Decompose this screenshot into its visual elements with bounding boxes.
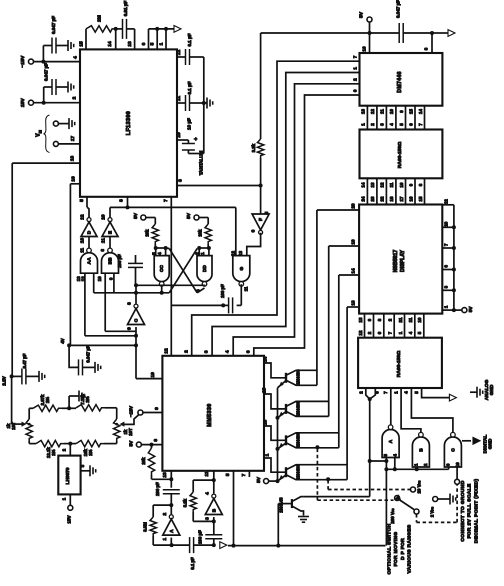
svg-text:9: 9: [127, 327, 133, 330]
svg-text:GND: GND: [487, 438, 493, 449]
transistor Q1 2N4403: [286, 369, 317, 385]
wire RA08-2 pin 5 to arrow: [414, 388, 457, 401]
svg-text:4V: 4V: [60, 338, 65, 343]
switch throw 20VFS: [411, 481, 422, 494]
svg-text:11: 11: [244, 286, 249, 291]
svg-text:9: 9: [154, 407, 160, 410]
svg-text:2M: 2M: [97, 15, 103, 22]
svg-text:LH0070: LH0070: [65, 467, 71, 484]
capacitor 200pF osc A: [155, 482, 180, 514]
svg-text:0.1 µF: 0.1 µF: [187, 33, 192, 46]
svg-text:C: C: [134, 318, 140, 322]
inverter F: [251, 186, 271, 235]
wire display pin 13 to Q4: [347, 300, 359, 307]
svg-text:4: 4: [73, 56, 79, 59]
svg-text:6: 6: [245, 350, 251, 353]
nand gate DD: [195, 252, 213, 286]
svg-text:BB: BB: [108, 257, 114, 264]
wire gate A inputs: [370, 458, 397, 546]
wire dashed switch to 2VFS: [417, 484, 458, 522]
svg-text:11: 11: [204, 471, 210, 476]
svg-text:3: 3: [204, 350, 210, 353]
svg-text:6: 6: [141, 42, 147, 45]
svg-text:11: 11: [176, 96, 182, 101]
svg-text:1: 1: [265, 453, 271, 456]
svg-text:7: 7: [241, 473, 247, 476]
wire bus digit B3: [225, 78, 360, 356]
svg-text:1: 1: [159, 42, 165, 45]
svg-text:10T: 10T: [11, 422, 16, 430]
svg-text:1: 1: [200, 252, 206, 255]
svg-text:10 µF: 10 µF: [187, 118, 192, 130]
svg-text:10: 10: [101, 214, 107, 220]
svg-text:DD: DD: [202, 265, 208, 272]
wire RA08-2 pin 7 to gate A: [383, 388, 391, 426]
wire AA output down to inverter C input: [85, 273, 138, 338]
wire display pin 14 to Q3: [339, 268, 359, 275]
wire D to gate AA: [88, 236, 90, 249]
ground integrator bus: [204, 98, 213, 109]
wire Q1 emitter to rail: [278, 381, 287, 388]
svg-text:12: 12: [80, 214, 86, 220]
svg-text:5V: 5V: [186, 212, 192, 219]
svg-text:11: 11: [101, 238, 107, 243]
wire cross couple CC to DD: [169, 249, 197, 293]
wire scan line bottom: [228, 544, 385, 548]
svg-text:5: 5: [79, 199, 85, 202]
capacitor 0.1uF pin 11: [176, 81, 204, 111]
wire F output to gate G: [247, 233, 261, 256]
nand gate C decimal point: [444, 432, 461, 467]
inverter B oscillator: [204, 492, 222, 520]
svg-text:12: 12: [358, 330, 363, 335]
nand gate BB: [97, 248, 119, 281]
wire CC output: [94, 285, 170, 295]
svg-text:2N4403: 2N4403: [296, 432, 301, 448]
inverter C: [127, 285, 145, 330]
wire 5V rail to comparator pullup: [261, 32, 370, 34]
svg-text:2.2V: 2.2V: [2, 376, 7, 385]
svg-text:23: 23: [370, 196, 375, 201]
svg-text:GND: GND: [489, 384, 495, 395]
wire DM7446 to RA08 pins: [361, 106, 425, 130]
svg-text:14: 14: [361, 182, 366, 187]
svg-text:16: 16: [263, 420, 269, 426]
svg-text:B: B: [211, 508, 217, 512]
svg-text:7: 7: [163, 199, 169, 202]
trimmer 1k 10T left: [6, 408, 36, 443]
svg-text:8: 8: [119, 199, 125, 202]
svg-text:12: 12: [176, 50, 182, 56]
switch pole 200VFS: [390, 494, 414, 523]
wire display to RA08-2 pins: [358, 314, 424, 338]
svg-text:6: 6: [251, 229, 257, 232]
svg-text:200 pF: 200 pF: [198, 530, 203, 544]
resistor 2M comparator feedback: [79, 15, 118, 49]
svg-text:2: 2: [72, 96, 78, 99]
svg-text:18: 18: [389, 196, 394, 201]
capacitor 0.1uF pin 12: [176, 33, 204, 65]
svg-text:200 VFS: 200 VFS: [390, 508, 395, 523]
wire gate C input to 2VFS circle: [455, 467, 460, 484]
wire A output: [170, 538, 174, 548]
node 2.2V reference tap: [2, 374, 23, 424]
wire dashed Q3 to switch pole: [317, 449, 393, 501]
svg-text:0.047 µF: 0.047 µF: [44, 63, 49, 81]
wire auto-zero node 4V: [60, 338, 71, 347]
resistor 10k bridge: [76, 440, 104, 456]
svg-text:D: D: [87, 230, 93, 234]
inverter A oscillator: [162, 513, 180, 541]
svg-text:A: A: [388, 439, 394, 443]
svg-text:11: 11: [380, 109, 385, 114]
svg-text:2: 2: [183, 350, 189, 353]
node VIN input terminals: [35, 115, 58, 153]
terminal 5V pullup DD: [186, 212, 208, 224]
wire strobe to G input 12: [235, 207, 237, 255]
svg-text:MM5330: MM5330: [207, 403, 213, 426]
resistor 8.2k osc: [183, 480, 214, 521]
ground Q5 emitter: [298, 517, 309, 523]
svg-text:13: 13: [80, 238, 86, 244]
svg-text:0.1 µF: 0.1 µF: [187, 81, 192, 94]
wire MM5330 pin 7 stub: [241, 471, 249, 477]
svg-text:24: 24: [361, 196, 366, 201]
wire RA08-2 pin 6 join: [370, 388, 380, 399]
capacitor 0.47uF reference: [12, 353, 45, 384]
wire oscillator out arrow: [220, 542, 227, 549]
svg-text:15: 15: [262, 388, 268, 394]
capacitor 10uF tantalum pin 10: [176, 118, 204, 175]
wire pin 18 to 2.2V node: [12, 156, 80, 377]
wire BB inputs down: [105, 273, 136, 331]
svg-text:E: E: [108, 231, 114, 234]
svg-text:2N4403: 2N4403: [296, 369, 301, 385]
svg-text:100 pF: 100 pF: [220, 284, 225, 298]
svg-text:CC: CC: [159, 265, 165, 272]
wire RA08 to display pins: [361, 178, 425, 204]
capacitor 0.047uF logic bypass: [370, 0, 435, 43]
wire display anode bus right: [442, 199, 462, 312]
svg-text:8: 8: [153, 439, 159, 442]
wire gate input link line: [386, 467, 448, 471]
svg-text:14: 14: [418, 109, 423, 114]
terminal 5V MM5330: [128, 439, 162, 447]
svg-text:5V: 5V: [128, 440, 134, 447]
transistor Q5 2N4148: [279, 497, 304, 516]
svg-text:−15V: −15V: [129, 405, 135, 417]
node bridge top center: [62, 391, 85, 411]
svg-text:15: 15: [408, 109, 413, 114]
wire MM5330 pin 5 riser: [225, 471, 234, 546]
wire pin 5 to inverter D: [79, 197, 89, 218]
svg-text:16: 16: [408, 196, 413, 201]
wire AA second input from CC output: [93, 273, 95, 293]
wire pin 8 strobe line: [110, 197, 236, 210]
svg-text:VARIOUS RANGES: VARIOUS RANGES: [407, 524, 413, 573]
svg-text:3: 3: [204, 517, 210, 520]
label connect to ground note: [460, 479, 479, 544]
wire DD output to inverter C node: [134, 283, 205, 291]
svg-text:3: 3: [178, 179, 184, 182]
capacitor 0.047uF on -15V rail: [43, 16, 73, 62]
wire Q5 collector to RA08 line: [303, 496, 370, 498]
label optional switch note: [387, 523, 413, 574]
svg-text:0.47 µF: 0.47 µF: [22, 353, 27, 368]
svg-text:15V: 15V: [66, 515, 71, 523]
svg-text:13: 13: [361, 109, 366, 114]
resistor 3.3k comparator pullup: [251, 33, 264, 186]
svg-text:2N4148: 2N4148: [279, 497, 284, 513]
svg-text:1%: 1%: [45, 397, 50, 403]
svg-text:4: 4: [225, 350, 231, 353]
wire pin7 line to 100pF and MM5330 pin 12: [163, 197, 229, 356]
svg-text:10: 10: [399, 182, 404, 187]
terminal 2VFS ground option: [430, 494, 456, 518]
nand gate B decimal point: [412, 432, 429, 467]
wire pin 14: [107, 29, 116, 50]
node bridge bottom center: [62, 442, 77, 456]
svg-text:10: 10: [97, 276, 102, 281]
svg-text:0.047 µF: 0.047 µF: [396, 0, 401, 18]
svg-text:1%: 1%: [51, 449, 56, 455]
svg-text:5V: 5V: [359, 11, 365, 18]
resistor 12.1k bridge: [36, 440, 64, 458]
wire CC input node: [154, 244, 168, 256]
resistor 2.67k bridge: [33, 394, 62, 411]
svg-text:11: 11: [389, 182, 394, 187]
resistor array U4 RA08-150: [360, 130, 443, 179]
svg-text:0.01 µF: 0.01 µF: [123, 1, 128, 17]
wire emitter rail to 5V: [277, 388, 279, 481]
svg-text:10: 10: [443, 221, 448, 226]
svg-text:11: 11: [79, 247, 84, 252]
capacitor 0.1uF osc: [173, 537, 214, 570]
svg-text:B: B: [418, 448, 424, 452]
wire Q4 collector riser: [326, 307, 347, 481]
svg-text:15: 15: [79, 41, 85, 47]
svg-text:17: 17: [70, 136, 76, 142]
wire B output: [212, 517, 216, 535]
svg-text:15V: 15V: [20, 98, 26, 108]
trimmer 1k 10T right: [104, 408, 133, 444]
svg-text:8: 8: [127, 302, 133, 305]
svg-text:12: 12: [370, 109, 375, 114]
wire -15V to bridge trimmer: [124, 372, 156, 425]
svg-text:12: 12: [230, 251, 236, 257]
svg-text:13: 13: [127, 41, 133, 47]
svg-text:5: 5: [264, 211, 270, 214]
svg-text:3.3M: 3.3M: [143, 522, 148, 532]
svg-text:5: 5: [150, 42, 156, 45]
wire integrator cap bus: [202, 57, 206, 154]
svg-text:0.047 µF: 0.047 µF: [86, 345, 91, 362]
svg-text:2N4403: 2N4403: [296, 401, 301, 417]
terminal 5V logic supply: [359, 11, 373, 53]
wire Q3 emitter to rail: [276, 443, 287, 451]
wire base feed pin 15: [262, 388, 287, 409]
wire VIN+ to ground: [58, 118, 74, 129]
nand gate G: [230, 251, 250, 292]
regulator U7 LH0070 reference: [58, 456, 80, 495]
wire DD input node: [197, 244, 211, 256]
svg-text:DECIMAL POINT (FIXED): DECIMAL POINT (FIXED): [473, 479, 479, 544]
wire base feed pin 1: [264, 453, 286, 472]
svg-text:3.3k: 3.3k: [251, 143, 256, 152]
svg-text:10: 10: [417, 317, 422, 322]
svg-text:200 pF: 200 pF: [155, 482, 160, 496]
svg-text:10k: 10k: [198, 229, 203, 237]
svg-text:14: 14: [351, 268, 356, 274]
svg-text:12: 12: [163, 348, 169, 354]
ground digital gnd arrow: [462, 435, 493, 454]
svg-text:DISPLAY: DISPLAY: [400, 249, 406, 271]
ground analog gnd symbol: [470, 379, 495, 400]
svg-text:13: 13: [351, 300, 356, 306]
switch throw lower: [414, 509, 419, 514]
svg-text:13: 13: [370, 182, 375, 187]
svg-text:5: 5: [152, 252, 158, 255]
resistor 10k pullup CC: [145, 224, 159, 244]
transistor Q2 2N4403: [286, 401, 329, 417]
svg-text:13: 13: [162, 472, 168, 478]
wire auto-zero to pin10 node: [69, 344, 136, 346]
svg-text:G: G: [239, 266, 245, 270]
svg-text:100 pF: 100 pF: [117, 254, 122, 268]
svg-text:2N4403: 2N4403: [296, 464, 301, 480]
op-amp U1 LF13300 analog block: [80, 49, 177, 196]
wire pin 16 to auto-zero node: [70, 176, 80, 345]
wire 15V to pin 2: [34, 96, 81, 104]
svg-text:A: A: [169, 529, 175, 533]
wire Q4 emitter to rail: [276, 475, 287, 483]
svg-text:5: 5: [225, 473, 231, 476]
svg-text:10k: 10k: [141, 457, 146, 465]
terminal -15V MM5330: [129, 405, 163, 417]
svg-text:17: 17: [399, 196, 404, 201]
terminal -15V: [20, 55, 34, 67]
svg-text:C: C: [450, 448, 456, 452]
wire pin 13: [162, 471, 174, 488]
wire bus digit B4: [245, 89, 359, 356]
wire inverter C input to MM5330 pin 10: [134, 327, 162, 379]
decoder U3 DM7446: [360, 53, 443, 106]
svg-text:2 VFS: 2 VFS: [430, 507, 435, 517]
svg-text:22: 22: [380, 196, 385, 201]
capacitor 200pF osc B: [198, 530, 223, 547]
svg-text:14: 14: [107, 41, 113, 47]
svg-text:12: 12: [443, 199, 448, 204]
wire bus digit B2: [204, 67, 360, 356]
wire VIN- to pin 17: [58, 136, 80, 144]
resistor array U6 RA08-150: [358, 338, 442, 388]
svg-text:15: 15: [418, 196, 423, 201]
wire bus digit B1: [183, 55, 359, 356]
transistor Q4 2N4403: [286, 464, 347, 480]
wire Q2 collector riser: [328, 246, 330, 402]
wire display pin 19 to Q2: [329, 239, 359, 246]
svg-text:−15V: −15V: [20, 55, 26, 67]
wire E to gate BB: [109, 236, 111, 249]
wire RA08-2 pin 2 line: [359, 388, 372, 497]
svg-text:4: 4: [204, 492, 210, 495]
wire base feed pin 14: [263, 357, 287, 378]
svg-text:19: 19: [351, 239, 356, 245]
svg-text:20: 20: [351, 203, 356, 209]
wire 5V arrow out: [432, 30, 455, 37]
svg-text:10: 10: [455, 462, 460, 467]
svg-text:10: 10: [150, 372, 156, 378]
display U5 NSB5917: [359, 205, 442, 314]
svg-text:8.2k: 8.2k: [183, 498, 188, 507]
svg-text:CONNECT TO GROUND: CONNECT TO GROUND: [460, 480, 466, 541]
svg-text:1%: 1%: [88, 449, 93, 455]
wire E input from strobe: [109, 207, 111, 217]
svg-text:10k: 10k: [145, 229, 150, 237]
inverter D: [79, 214, 97, 252]
svg-text:0.1 µF: 0.1 µF: [190, 557, 195, 570]
svg-text:16: 16: [71, 176, 77, 182]
svg-text:12: 12: [380, 182, 385, 187]
resistor 10k pullup DD: [198, 224, 212, 244]
wire RA08-2 pin 1 to gate B: [393, 388, 421, 434]
svg-text:2: 2: [162, 513, 168, 516]
svg-text:13: 13: [238, 251, 244, 257]
nand gate A decimal point: [382, 425, 399, 458]
nand gate AA: [76, 248, 98, 281]
wire base feed pin 16: [263, 420, 287, 441]
svg-text:20 VFS: 20 VFS: [416, 481, 421, 494]
svg-text:10: 10: [389, 109, 394, 114]
terminal 15V LH0070 pin 1: [62, 494, 73, 523]
svg-text:5V: 5V: [468, 306, 474, 313]
svg-text:5V: 5V: [256, 476, 262, 483]
counter U2 MM5330 DPM logic: [162, 356, 264, 471]
svg-text:1: 1: [162, 538, 168, 541]
terminal 15V: [20, 98, 34, 108]
wire Q5 base riser: [278, 504, 292, 546]
svg-text:OPTIONAL SWITCH: OPTIONAL SWITCH: [387, 523, 393, 574]
wire dashed Q4 to 20VFS: [328, 480, 410, 490]
svg-text:5V: 5V: [133, 212, 139, 219]
svg-text:RA08-150Ω: RA08-150Ω: [397, 142, 403, 169]
ground LH0070 pin 3: [80, 464, 96, 476]
svg-text:11: 11: [408, 317, 413, 322]
wire Q2 emitter to rail: [276, 412, 287, 420]
svg-text:F: F: [258, 218, 264, 221]
svg-text:RA08-150Ω: RA08-150Ω: [396, 351, 402, 378]
terminal 5V pullup CC: [133, 212, 155, 224]
svg-text:1%: 1%: [85, 396, 90, 402]
wire G output to 100pF: [237, 284, 242, 305]
svg-text:AA: AA: [87, 257, 93, 264]
wire Q3 collector riser: [315, 275, 338, 449]
svg-text:13: 13: [358, 317, 363, 322]
svg-text:14: 14: [263, 357, 269, 363]
terminal 5V display anode: [462, 306, 474, 313]
transistor Q3 2N4403: [286, 432, 339, 448]
wire RA08-2 pin 4 to gate C: [404, 388, 453, 434]
svg-text:21: 21: [398, 317, 403, 322]
wire pin 11: [204, 471, 216, 494]
svg-text:DM7446: DM7446: [397, 71, 403, 92]
svg-text:TANTALUM: TANTALUM: [199, 151, 204, 176]
svg-text:FOR MOVING: FOR MOVING: [393, 532, 399, 567]
wire pin 3 comparator out: [177, 179, 263, 188]
nand gate CC: [152, 252, 170, 286]
resistor 7.15k bridge: [76, 394, 105, 411]
capacitor 0.047uF on 15V rail: [44, 63, 74, 103]
